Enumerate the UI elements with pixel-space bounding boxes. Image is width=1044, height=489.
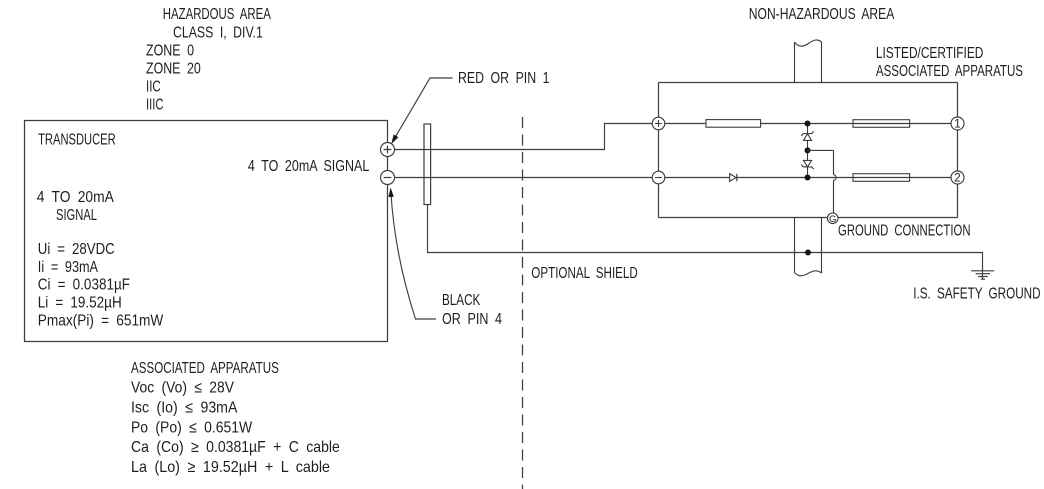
cable shield bar [424, 124, 431, 205]
wire apparatus top rail [665, 123, 951, 125]
hazardous / non-hazardous boundary line (dashed) [522, 117, 524, 489]
leader BLACK OR PIN 4 [391, 192, 436, 319]
svg-text:ZONE 0: ZONE 0 [146, 42, 194, 59]
terminal G (ground connection) [827, 213, 838, 224]
wire + signal (transducer to apparatus) [395, 124, 653, 150]
fuse F2 [853, 174, 910, 182]
svg-text:GROUND CONNECTION: GROUND CONNECTION [838, 223, 971, 240]
svg-text:TRANSDUCER: TRANSDUCER [38, 132, 116, 149]
svg-text:Isc (Io) ≤ 93mA: Isc (Io) ≤ 93mA [131, 400, 238, 417]
svg-text:OR PIN 4: OR PIN 4 [442, 311, 502, 328]
svg-text:ASSOCIATED APPARATUS: ASSOCIATED APPARATUS [131, 360, 279, 377]
svg-text:Ci = 0.0381µF: Ci = 0.0381µF [38, 277, 130, 294]
svg-text:2: 2 [954, 173, 960, 185]
resistor R1 [706, 120, 761, 128]
node junction top rail [805, 121, 811, 127]
terminal + (apparatus) [652, 117, 665, 130]
junction shield at cable [805, 250, 811, 256]
svg-text:4 TO 20mA: 4 TO 20mA [37, 189, 114, 206]
terminal + (transducer) [381, 143, 395, 157]
diode D1 [730, 174, 736, 182]
zener diode VR1 [807, 126, 809, 134]
svg-text:SIGNAL: SIGNAL [56, 207, 97, 224]
svg-text:ZONE 20: ZONE 20 [146, 61, 201, 78]
node junction zener midpoint [805, 147, 811, 153]
svg-text:La (Lo) ≥ 19.52µH + L cable: La (Lo) ≥ 19.52µH + L cable [131, 459, 330, 476]
leader RED OR PIN 1 [393, 78, 452, 141]
svg-text:HAZARDOUS AREA: HAZARDOUS AREA [163, 6, 271, 23]
svg-text:IIIC: IIIC [146, 97, 164, 114]
svg-text:RED OR PIN 1: RED OR PIN 1 [458, 70, 550, 87]
node junction bottom rail [805, 175, 811, 181]
svg-text:OPTIONAL SHIELD: OPTIONAL SHIELD [531, 265, 638, 282]
terminal 1 (apparatus output) [951, 117, 964, 130]
zener diode VR2 [807, 151, 809, 161]
transducer box (enclosure) [25, 121, 388, 342]
svg-text:4 TO 20mA SIGNAL: 4 TO 20mA SIGNAL [248, 158, 369, 175]
svg-text:Voc (Vo) ≤ 28V: Voc (Vo) ≤ 28V [131, 380, 234, 397]
terminal - (transducer) [381, 171, 395, 185]
svg-text:BLACK: BLACK [442, 292, 481, 309]
svg-text:Pmax(Pi) = 651mW: Pmax(Pi) = 651mW [38, 312, 164, 329]
terminal - (apparatus) [652, 171, 665, 184]
svg-text:CLASS I, DIV.1: CLASS I, DIV.1 [173, 24, 263, 41]
I.S. safety ground symbol [971, 271, 994, 279]
svg-text:NON-HAZARDOUS AREA: NON-HAZARDOUS AREA [749, 6, 895, 23]
terminal 2 (apparatus output) [951, 171, 964, 184]
cable trunk lower section [795, 218, 822, 274]
svg-text:1: 1 [954, 119, 960, 131]
svg-text:LISTED/CERTIFIED: LISTED/CERTIFIED [876, 45, 984, 62]
wire apparatus bottom rail [665, 177, 951, 179]
wire - signal (transducer to apparatus) [395, 177, 653, 179]
svg-text:G: G [829, 214, 836, 225]
svg-text:Ca (Co) ≥ 0.0381µF + C cable: Ca (Co) ≥ 0.0381µF + C cable [131, 439, 340, 456]
cable trunk upper section [795, 42, 822, 83]
svg-text:I.S. SAFETY GROUND: I.S. SAFETY GROUND [913, 286, 1040, 303]
fuse F1 [853, 120, 910, 128]
svg-text:IIC: IIC [146, 79, 161, 96]
svg-text:ASSOCIATED APPARATUS: ASSOCIATED APPARATUS [876, 63, 1023, 80]
svg-text:Ii = 93mA: Ii = 93mA [38, 259, 98, 276]
svg-text:Li = 19.52µH: Li = 19.52µH [38, 294, 122, 311]
wire optional shield [428, 205, 983, 280]
wire zener midpoint to terminal G (with crossover hop) [808, 150, 834, 213]
svg-text:Ui = 28VDC: Ui = 28VDC [38, 241, 115, 258]
associated apparatus box (enclosure) [659, 83, 958, 218]
svg-text:Po (Po) ≤ 0.651W: Po (Po) ≤ 0.651W [131, 419, 253, 436]
